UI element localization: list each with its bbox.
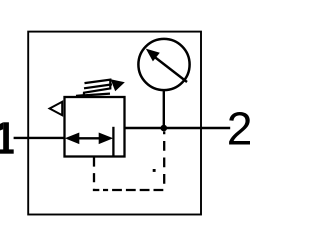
wire: port 1 line	[14, 137, 66, 139]
pressure gauge	[138, 39, 189, 90]
wire: gauge stem	[163, 90, 165, 128]
svg-text:2: 2	[227, 103, 250, 155]
port label 1	[0, 122, 14, 153]
pilot line: dashed vertical below junction	[163, 131, 165, 190]
enclosure frame	[28, 32, 201, 215]
wire: outlet line to port 2	[125, 127, 231, 129]
junction node	[161, 125, 168, 132]
valve seat bar	[112, 127, 114, 157]
adjustment arrow	[84, 79, 125, 91]
spring	[76, 80, 110, 96]
gauge needle arrow	[146, 49, 187, 82]
flow path double arrow	[65, 133, 113, 145]
pilot line: dashed vertical under regulator	[94, 158, 99, 191]
stray dash dot	[153, 169, 156, 172]
pilot line: dashed bottom horizontal	[103, 189, 163, 191]
vent triangle	[50, 102, 63, 115]
pressure regulator body	[65, 97, 125, 157]
